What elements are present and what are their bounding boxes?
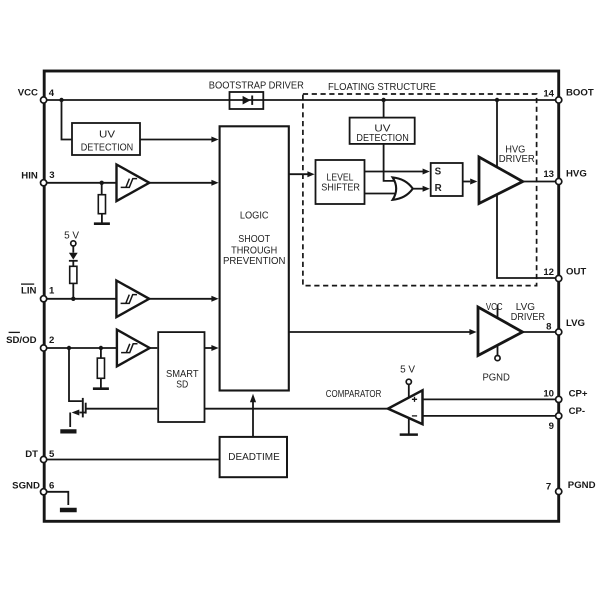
svg-text:2: 2 bbox=[49, 335, 54, 346]
svg-text:SD/OD: SD/OD bbox=[6, 335, 36, 346]
svg-text:SHIFTER: SHIFTER bbox=[321, 183, 360, 194]
svg-text:12: 12 bbox=[543, 267, 554, 278]
svg-text:8: 8 bbox=[546, 321, 552, 332]
svg-text:SD: SD bbox=[176, 379, 188, 390]
svg-text:1: 1 bbox=[49, 286, 55, 297]
svg-text:CP-: CP- bbox=[569, 406, 586, 417]
svg-text:COMPARATOR: COMPARATOR bbox=[326, 389, 382, 400]
svg-text:5: 5 bbox=[49, 449, 55, 460]
svg-text:DEADTIME: DEADTIME bbox=[228, 452, 280, 463]
svg-text:7: 7 bbox=[546, 481, 551, 492]
svg-text:PGND: PGND bbox=[568, 480, 596, 491]
svg-text:LIN: LIN bbox=[21, 286, 37, 297]
svg-text:BOOT: BOOT bbox=[566, 87, 594, 98]
svg-text:VCC: VCC bbox=[486, 302, 503, 313]
svg-text:BOOTSTRAP DRIVER: BOOTSTRAP DRIVER bbox=[209, 81, 304, 92]
svg-text:10: 10 bbox=[543, 388, 554, 399]
svg-text:SHOOT: SHOOT bbox=[238, 234, 270, 245]
svg-text:HVG: HVG bbox=[566, 169, 587, 180]
svg-text:5 V: 5 V bbox=[64, 230, 79, 241]
svg-text:PGND: PGND bbox=[482, 373, 510, 384]
svg-text:DRIVER: DRIVER bbox=[499, 154, 535, 165]
svg-text:3: 3 bbox=[49, 170, 54, 181]
svg-text:UV: UV bbox=[99, 129, 115, 140]
svg-text:PREVENTION: PREVENTION bbox=[223, 256, 286, 267]
svg-text:OUT: OUT bbox=[566, 266, 586, 277]
svg-text:FLOATING STRUCTURE: FLOATING STRUCTURE bbox=[328, 82, 436, 93]
svg-text:SGND: SGND bbox=[12, 481, 40, 492]
svg-text:LOGIC: LOGIC bbox=[240, 211, 269, 222]
svg-text:LVG: LVG bbox=[566, 318, 585, 329]
svg-text:5 V: 5 V bbox=[400, 364, 415, 375]
svg-text:6: 6 bbox=[49, 481, 54, 492]
svg-text:CP+: CP+ bbox=[569, 389, 588, 400]
svg-text:HIN: HIN bbox=[21, 170, 38, 181]
svg-text:9: 9 bbox=[549, 421, 554, 432]
svg-text:13: 13 bbox=[543, 169, 554, 180]
svg-text:DT: DT bbox=[25, 449, 38, 460]
svg-text:DETECTION: DETECTION bbox=[356, 133, 408, 144]
svg-text:S: S bbox=[435, 166, 442, 177]
svg-text:VCC: VCC bbox=[18, 88, 38, 99]
svg-text:R: R bbox=[435, 183, 442, 194]
svg-text:14: 14 bbox=[543, 88, 554, 99]
svg-text:DRIVER: DRIVER bbox=[511, 312, 546, 323]
svg-text:DETECTION: DETECTION bbox=[81, 143, 134, 154]
svg-text:4: 4 bbox=[49, 88, 55, 99]
